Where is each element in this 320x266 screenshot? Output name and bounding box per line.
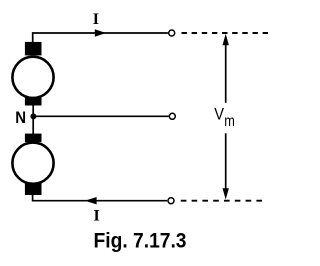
node N junction dot — [30, 113, 36, 119]
svg-text:Fig. 7.17.3: Fig. 7.17.3 — [94, 229, 187, 252]
svg-text:I: I — [93, 11, 99, 28]
svg-text:N: N — [15, 108, 26, 127]
wire: M1 top brush to top rail — [33, 33, 168, 43]
svg-text:m: m — [224, 113, 235, 130]
terminal: top open circle — [169, 30, 175, 36]
wire: M2 bottom brush to bottom rail — [33, 194, 168, 201]
motor M1 bottom brush — [25, 97, 42, 105]
motor M1 top brush — [25, 42, 42, 56]
terminal: bottom open circle — [168, 198, 174, 204]
current arrow I (bottom, pointing left) — [85, 197, 97, 204]
wire: bottom dashed lead — [181, 200, 263, 202]
motor M2 top brush — [25, 134, 42, 143]
motor M1 (top machine) armature circle — [12, 57, 53, 98]
wire: top dashed lead — [182, 32, 269, 34]
terminal: middle open circle — [169, 113, 175, 119]
current arrow I (top, pointing right) — [95, 29, 106, 36]
Vm dimension arrow (upper, pointing up) — [225, 44, 227, 103]
wire: node N to middle terminal — [33, 115, 168, 117]
motor M2 bottom brush — [25, 183, 42, 195]
motor M2 (bottom machine) armature circle — [12, 143, 53, 184]
svg-text:I: I — [93, 207, 99, 224]
svg-text:V: V — [214, 104, 224, 123]
Vm dimension arrow (lower, pointing down) — [225, 133, 227, 189]
wire: series connector between M1 and M2 — [32, 105, 34, 135]
